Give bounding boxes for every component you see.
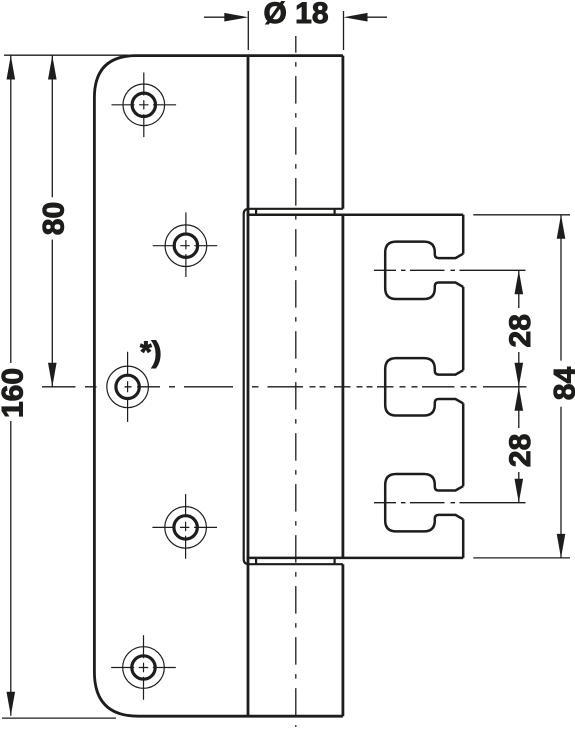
dim 80 line xyxy=(51,56,53,387)
dim Ø18 extension line left xyxy=(247,11,249,50)
dim 84 top extension xyxy=(473,214,570,216)
hook cutout 2 xyxy=(385,358,463,415)
dim 160 bottom extension xyxy=(2,717,116,719)
door leaf plate outline xyxy=(94,56,343,717)
barrel right edge (3 segments) xyxy=(341,56,344,717)
dim 28 lower arrow bottom xyxy=(515,479,524,503)
screw hole H2 xyxy=(153,212,218,277)
screw hole H1 xyxy=(112,73,177,138)
knuckle cap tick top-right xyxy=(334,209,336,215)
dim 84 arrow top xyxy=(557,215,566,239)
dim 160 top extension xyxy=(4,54,128,56)
dim 84 arrow bottom xyxy=(557,534,566,558)
dim 84 line xyxy=(560,215,562,558)
svg-text:28: 28 xyxy=(504,434,537,467)
svg-text:80: 80 xyxy=(37,202,70,235)
screw hole H4 xyxy=(152,494,217,559)
dim 28 line segments xyxy=(518,270,520,502)
dim 84 bottom extension xyxy=(473,557,570,559)
dim 160 arrow bottom xyxy=(7,692,16,716)
frame wing right edge segments xyxy=(462,215,465,558)
dim Ø18 arrow right xyxy=(344,13,388,22)
dim Ø18 arrow left xyxy=(204,13,248,22)
barrel left edge xyxy=(247,56,250,717)
frame wing sliver and knuckle caps xyxy=(244,209,343,564)
hook cutout 1 centerline xyxy=(374,269,526,271)
dim 80 arrow top xyxy=(48,56,57,80)
dim 28 upper arrow bottom xyxy=(515,363,524,387)
screw hole H5 xyxy=(111,635,176,700)
dim 28 lower arrow top xyxy=(515,387,524,411)
svg-text:Ø 18: Ø 18 xyxy=(263,0,328,30)
main horizontal centerline xyxy=(85,386,527,388)
dim 28 upper arrow top xyxy=(515,270,524,294)
dim 160 line xyxy=(10,56,12,716)
hook cutout 3 centerline xyxy=(374,502,526,504)
knuckle cap tick bottom-right xyxy=(334,558,336,564)
svg-text:28: 28 xyxy=(504,314,537,347)
dim 80 bottom tick xyxy=(42,386,76,388)
svg-text:*): *) xyxy=(140,336,162,369)
knuckle cap tick top-left xyxy=(255,209,257,215)
barrel axis centerline xyxy=(295,36,297,727)
dim Ø18 extension line right xyxy=(343,11,345,50)
svg-text:84: 84 xyxy=(549,367,575,401)
screw hole H3 xyxy=(107,352,149,422)
hook cutout 3 xyxy=(385,474,463,531)
frame wing bottom edge xyxy=(247,557,464,560)
frame wing top edge xyxy=(247,214,464,217)
dim 160 arrow top xyxy=(7,56,16,80)
knuckle cap tick bottom-left xyxy=(255,558,257,564)
dim 80 arrow bottom xyxy=(48,363,57,387)
hook cutout 1 xyxy=(385,242,463,299)
svg-text:160: 160 xyxy=(0,368,29,418)
